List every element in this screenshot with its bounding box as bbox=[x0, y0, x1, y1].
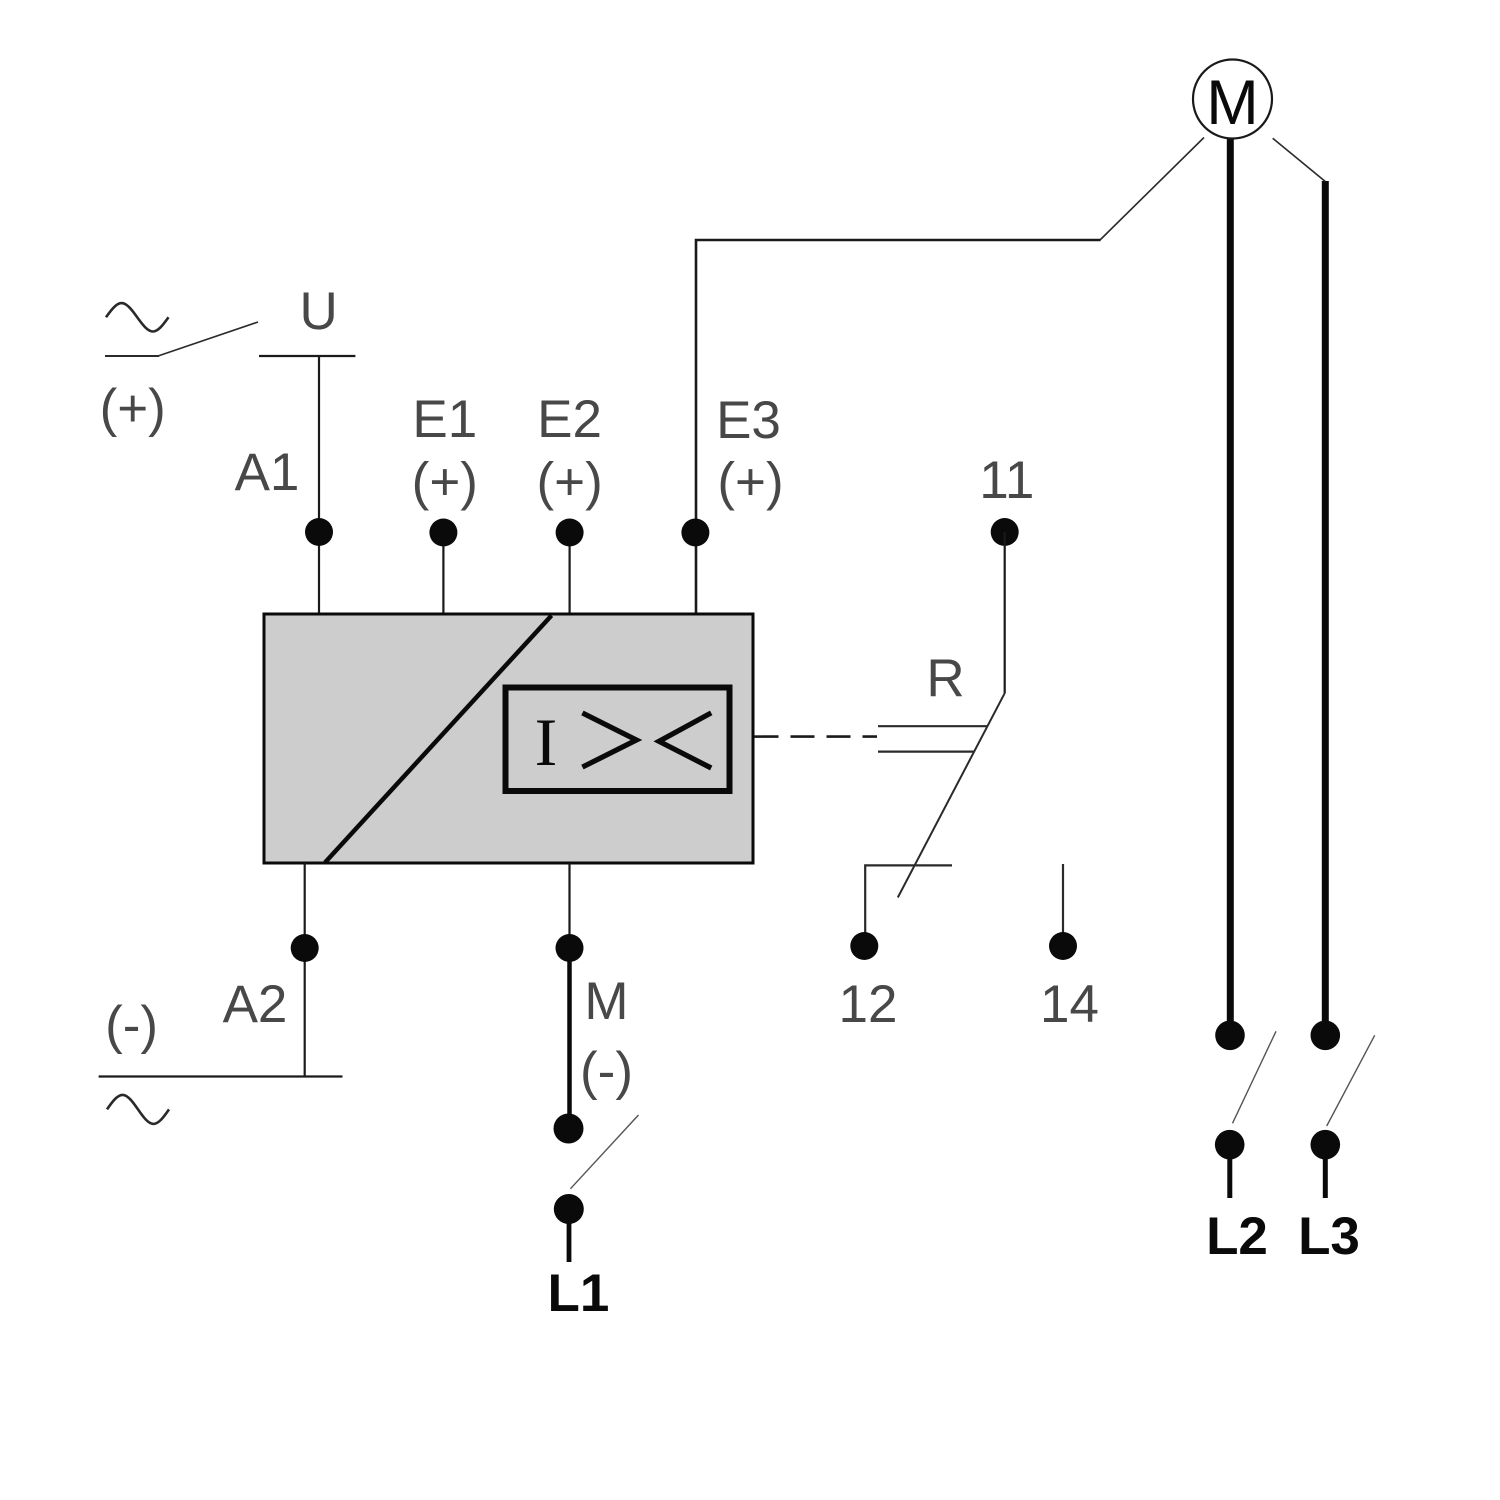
svg-text:(+): (+) bbox=[717, 453, 783, 512]
svg-text:E2: E2 bbox=[537, 390, 602, 449]
wire E2 bbox=[568, 532, 570, 614]
switch dot L2 lower bbox=[1215, 1130, 1245, 1160]
svg-text:11: 11 bbox=[979, 451, 1034, 510]
contact R lower bar bbox=[878, 750, 974, 752]
chevron left (<) bbox=[659, 713, 711, 768]
terminal dot 11 bbox=[991, 518, 1019, 546]
terminal dot E1 bbox=[429, 519, 457, 547]
dashed actuation link bbox=[755, 735, 878, 738]
terminal dot A2 bbox=[291, 934, 319, 962]
AC source symbol (bottom left tilde) bbox=[107, 1095, 169, 1124]
svg-text:M: M bbox=[1206, 68, 1258, 138]
svg-text:U: U bbox=[299, 282, 337, 341]
svg-text:(-): (-) bbox=[580, 1042, 633, 1101]
AC source symbol (top left tilde) bbox=[106, 303, 169, 331]
terminal dot E3 bbox=[681, 519, 709, 547]
svg-text:12: 12 bbox=[839, 975, 898, 1034]
wire L3 phase vertical bbox=[1322, 181, 1329, 1033]
motor M bbox=[1193, 60, 1272, 139]
supply switch stub bbox=[105, 355, 159, 357]
wire M output bbox=[568, 863, 570, 948]
wire bottom-left bar bbox=[99, 1075, 343, 1077]
wire U bar bbox=[259, 355, 355, 357]
switch dot L3 lower bbox=[1311, 1130, 1341, 1160]
terminal dot M bbox=[556, 934, 584, 962]
chevron right (>) bbox=[582, 713, 636, 767]
wire L2 phase from motor down bbox=[1227, 138, 1234, 1033]
svg-text:14: 14 bbox=[1040, 975, 1099, 1034]
wire 11 down bbox=[1004, 532, 1006, 693]
terminal dot 14 bbox=[1049, 932, 1077, 960]
switch dot L2 upper bbox=[1215, 1021, 1245, 1051]
terminal dot 12 bbox=[850, 932, 878, 960]
terminal dot E2 bbox=[556, 519, 584, 547]
wire E3 to motor (vertical + horizontal run) bbox=[696, 240, 1101, 614]
svg-text:M: M bbox=[584, 972, 628, 1031]
wire L2 stub bbox=[1227, 1145, 1232, 1198]
relay box U1 bbox=[264, 614, 753, 863]
svg-text:L1: L1 bbox=[547, 1264, 609, 1323]
wire 12 (L shape) bbox=[865, 865, 952, 946]
wire M thick segment bbox=[567, 948, 572, 1128]
switch L3 blade bbox=[1327, 1035, 1375, 1126]
svg-text:R: R bbox=[926, 649, 964, 708]
switch dot L1 upper bbox=[554, 1114, 584, 1144]
svg-text:L2: L2 bbox=[1206, 1207, 1268, 1266]
wire 14 stub bbox=[1062, 864, 1064, 946]
wire A2 bbox=[304, 863, 306, 1077]
svg-text:(+): (+) bbox=[412, 453, 478, 512]
contact R moving arm bbox=[898, 693, 1005, 897]
svg-text:I: I bbox=[535, 704, 558, 780]
wire motor left lead diagonal bbox=[1100, 138, 1204, 241]
wire L1 stub bbox=[567, 1209, 572, 1262]
switch L1 blade bbox=[570, 1115, 638, 1189]
terminal dot A1 bbox=[305, 518, 333, 546]
supply switch blade bbox=[158, 322, 258, 356]
svg-text:E3: E3 bbox=[716, 391, 781, 450]
svg-text:A1: A1 bbox=[235, 443, 300, 502]
svg-text:(+): (+) bbox=[536, 453, 602, 512]
svg-text:A2: A2 bbox=[223, 975, 288, 1034]
switch L2 blade bbox=[1233, 1031, 1277, 1123]
svg-text:(-): (-) bbox=[105, 996, 158, 1055]
wire A1 bbox=[318, 356, 320, 614]
relay box diagonal divider bbox=[325, 616, 552, 863]
switch dot L1 lower bbox=[554, 1194, 584, 1224]
svg-text:L3: L3 bbox=[1298, 1207, 1360, 1266]
svg-text:(+): (+) bbox=[100, 379, 166, 438]
wire motor right lead diagonal bbox=[1273, 138, 1326, 181]
svg-text:E1: E1 bbox=[412, 390, 477, 449]
current sensor inner box bbox=[506, 688, 730, 792]
switch dot L3 upper bbox=[1311, 1021, 1341, 1051]
contact R upper bar bbox=[878, 725, 987, 727]
wire L3 stub bbox=[1323, 1145, 1328, 1198]
wire E1 bbox=[442, 532, 444, 614]
